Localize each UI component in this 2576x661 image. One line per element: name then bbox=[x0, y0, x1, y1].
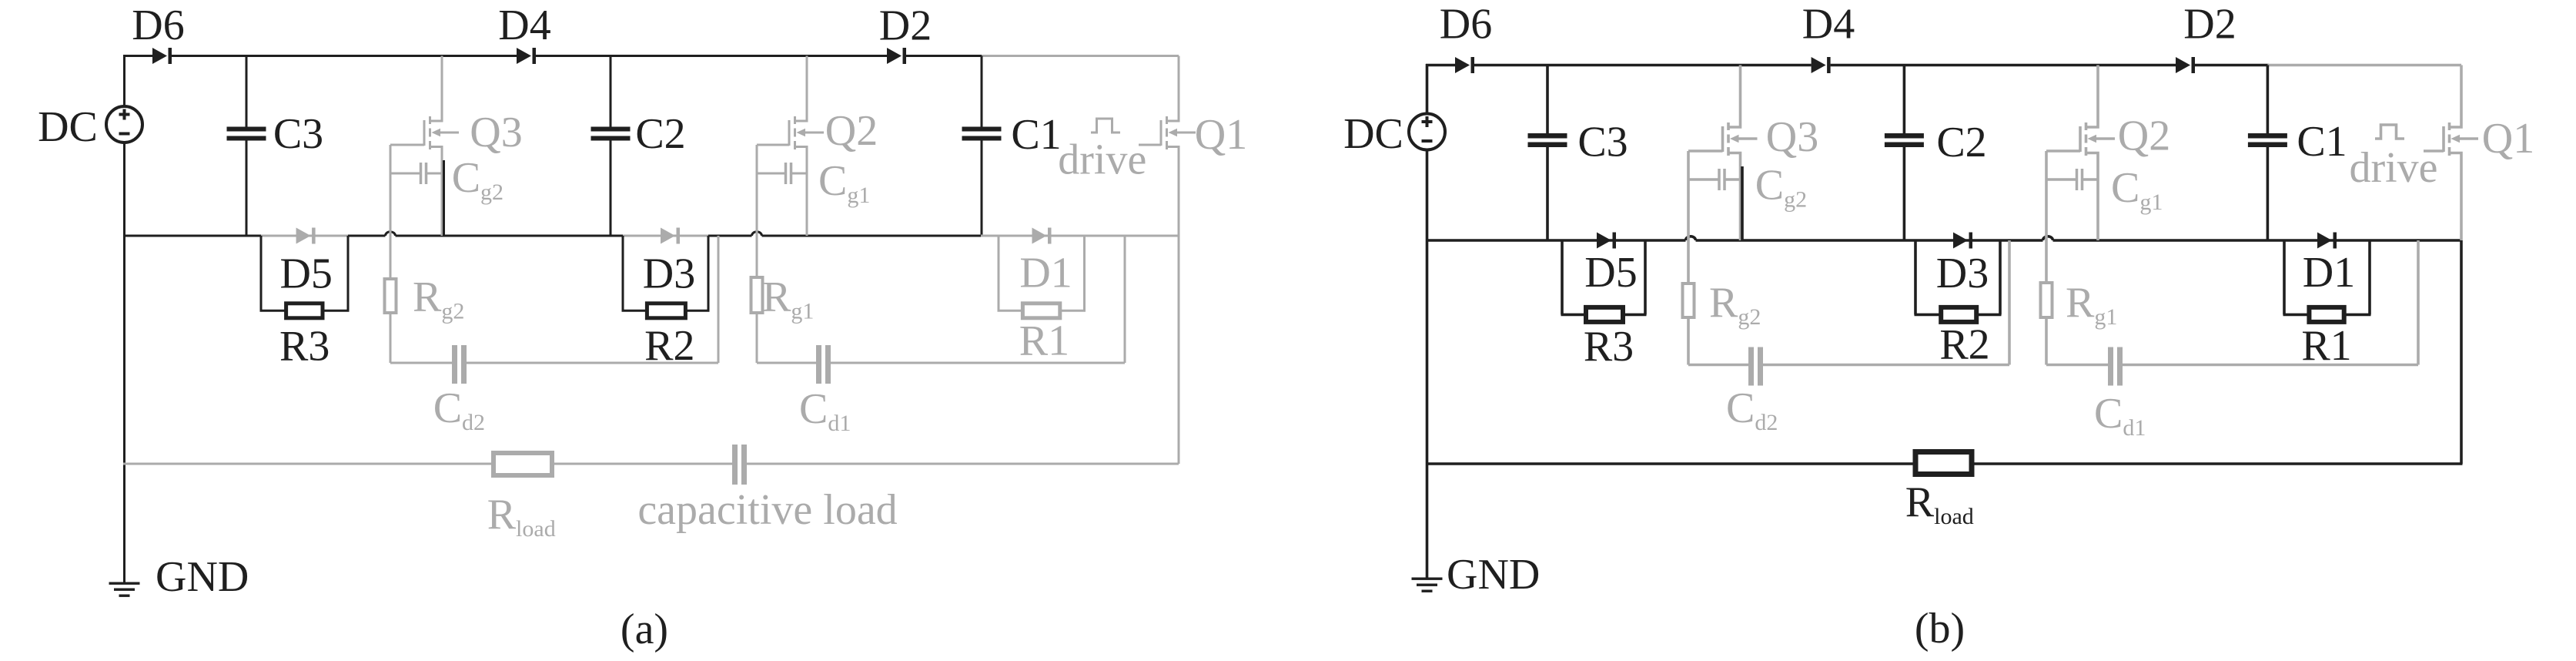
svg-text:R1: R1 bbox=[1019, 317, 1069, 364]
wire mid rail (b) bbox=[1426, 239, 1686, 242]
wire top rail segment DC to D6 (b) bbox=[1426, 64, 1455, 67]
capacitor C2 (b) bbox=[1885, 65, 1924, 241]
wire snubber loop around D3 (a) bbox=[622, 236, 710, 310]
svg-text:capacitive load: capacitive load bbox=[637, 486, 897, 534]
diode D6 (b) bbox=[1455, 57, 1470, 73]
diode D4 (b) bbox=[1812, 57, 1826, 73]
svg-text:C: C bbox=[818, 157, 847, 205]
diode D5 (b) bbox=[1597, 233, 1611, 249]
svg-text:R: R bbox=[1905, 478, 1935, 526]
resistor R3 (a) bbox=[286, 304, 323, 318]
svg-text:R: R bbox=[413, 273, 442, 321]
svg-text:D1: D1 bbox=[2303, 249, 2355, 297]
svg-text:D4: D4 bbox=[1802, 1, 1855, 49]
diode D3 (a) bbox=[661, 228, 675, 244]
capacitor Cg1 (b) bbox=[2046, 169, 2098, 190]
wire gate node down from Q (a) bbox=[390, 145, 452, 363]
wire snubber loop around D5 (a) bbox=[260, 236, 350, 310]
transistor Q1 (a) bbox=[1139, 56, 1196, 465]
wire bottom rail / load loop (b) bbox=[1426, 240, 2463, 464]
svg-text:R1: R1 bbox=[2301, 322, 2351, 370]
svg-text:C1: C1 bbox=[2297, 118, 2347, 166]
capacitor Cd1 (a) bbox=[816, 345, 831, 384]
capacitor Cd2 (b) bbox=[1748, 347, 1763, 386]
drive pulse symbol (a) bbox=[1091, 119, 1120, 133]
diode D1 (b) bbox=[2317, 233, 2332, 249]
resistor Rload (a) bbox=[493, 453, 552, 475]
diode D2 (b) bbox=[2176, 57, 2190, 73]
svg-text:C: C bbox=[2111, 164, 2139, 212]
svg-text:(a): (a) bbox=[621, 606, 668, 653]
resistor R3 (b) bbox=[1586, 307, 1623, 322]
svg-text:g2: g2 bbox=[1738, 304, 1761, 330]
wire Cd1 to mid rail (a) bbox=[831, 236, 1125, 363]
svg-text:DC: DC bbox=[1343, 110, 1403, 158]
ground GND (b) bbox=[1412, 578, 1443, 592]
capacitor C2 (a) bbox=[591, 56, 631, 237]
svg-text:C2: C2 bbox=[635, 110, 685, 158]
wire top rail D4 to D2 (a) bbox=[536, 55, 887, 57]
transistor Q2 (b) bbox=[2046, 65, 2115, 241]
transistor Q3 (b) bbox=[1688, 65, 1758, 241]
transistor Q2 (a) bbox=[757, 56, 824, 237]
svg-text:C: C bbox=[452, 154, 480, 202]
svg-text:D3: D3 bbox=[1936, 250, 1989, 297]
svg-text:g2: g2 bbox=[441, 299, 464, 324]
svg-text:d2: d2 bbox=[462, 410, 485, 435]
svg-text:C2: C2 bbox=[1936, 119, 1986, 166]
capacitor C3 (a) bbox=[227, 56, 266, 237]
svg-text:Q2: Q2 bbox=[2118, 112, 2170, 159]
transistor Q1 (b) bbox=[2424, 65, 2478, 241]
resistor Rg1 (b) bbox=[2041, 283, 2052, 317]
wire top rail segment DC to D6 (a) bbox=[123, 55, 152, 57]
svg-text:Q2: Q2 bbox=[825, 107, 878, 155]
diode D6 (a) bbox=[152, 48, 167, 64]
wire top rail C1 to Q1 drain (gray) (b) bbox=[2267, 64, 2461, 67]
capacitor Cd1 (b) bbox=[2108, 347, 2123, 386]
svg-text:R: R bbox=[762, 273, 791, 321]
svg-text:R: R bbox=[487, 491, 517, 539]
wire gate node down from Q (a) bbox=[757, 145, 816, 363]
svg-text:Q1: Q1 bbox=[2482, 115, 2534, 163]
resistor R2 (b) bbox=[1941, 307, 1976, 322]
svg-text:Q1: Q1 bbox=[1195, 111, 1247, 159]
wire DC- down to ground (b) bbox=[1426, 150, 1429, 578]
DC source Vb bbox=[1409, 114, 1445, 150]
capacitive load capacitor (a) bbox=[732, 445, 747, 485]
svg-text:Q3: Q3 bbox=[470, 109, 522, 156]
resistor R1 (b) bbox=[2309, 307, 2343, 322]
resistor Rg2 (b) bbox=[1683, 284, 1694, 317]
resistor Rg1 (a) bbox=[751, 277, 763, 313]
transistor Q3 (a) bbox=[390, 56, 459, 237]
wire DC+ to top rail (b) bbox=[1426, 64, 1429, 114]
svg-text:C: C bbox=[2094, 390, 2123, 438]
svg-text:DC: DC bbox=[38, 103, 98, 151]
wire DC+ to top rail (a) bbox=[123, 55, 125, 106]
svg-text:g1: g1 bbox=[847, 183, 870, 208]
diode D4 (a) bbox=[517, 48, 531, 64]
resistor R1 (a) bbox=[1022, 304, 1059, 318]
wire snubber loop around D1 (a) bbox=[998, 236, 1086, 310]
svg-text:R: R bbox=[2066, 279, 2095, 327]
wire top rail C1 to Q1 drain (gray) (a) bbox=[982, 55, 1179, 57]
capacitor C1 (b) bbox=[2248, 65, 2287, 241]
svg-text:Q3: Q3 bbox=[1766, 113, 1818, 161]
svg-text:drive: drive bbox=[2349, 144, 2437, 192]
capacitor C3 (b) bbox=[1528, 65, 1567, 241]
wire Cd2 to mid rail (b) bbox=[1763, 240, 2009, 365]
svg-text:g1: g1 bbox=[2094, 304, 2117, 330]
wire top rail D6 to D4 (b) bbox=[1474, 64, 1812, 67]
resistor Rload (b) bbox=[1915, 452, 1972, 475]
wire black segment beside Q3 source (b) bbox=[1741, 166, 1744, 240]
diode D2 (a) bbox=[887, 48, 902, 64]
wire hop over gate wire at x=2660 (b) bbox=[2043, 237, 2053, 240]
svg-text:R3: R3 bbox=[279, 322, 330, 370]
svg-text:(b): (b) bbox=[1915, 605, 1965, 653]
svg-text:GND: GND bbox=[156, 553, 249, 601]
svg-text:D2: D2 bbox=[879, 2, 932, 50]
resistor R2 (a) bbox=[647, 304, 685, 318]
wire snubber loop around D5 (b) bbox=[1561, 240, 1647, 314]
wire snubber loop around D1 (b) bbox=[2283, 240, 2371, 314]
svg-text:R3: R3 bbox=[1584, 323, 1634, 371]
capacitor Cg2 (b) bbox=[1688, 169, 1741, 190]
svg-text:C3: C3 bbox=[273, 110, 323, 158]
svg-text:R: R bbox=[1709, 279, 1738, 327]
wire mid rail (a) bbox=[123, 235, 261, 237]
diode D3 (b) bbox=[1953, 233, 1968, 249]
svg-text:GND: GND bbox=[1447, 551, 1540, 599]
svg-text:C1: C1 bbox=[1011, 111, 1061, 159]
wire Cd1 to mid rail (b) bbox=[2123, 240, 2418, 365]
svg-text:D6: D6 bbox=[1440, 1, 1492, 49]
wire snubber loop around D3 (b) bbox=[1915, 240, 2002, 314]
wire hop over gate wire at x=507 (a) bbox=[386, 232, 396, 236]
capacitor Cg1 (a) bbox=[757, 163, 807, 184]
svg-text:R2: R2 bbox=[1939, 320, 1989, 368]
wire black segment beside Q3 source (a) bbox=[443, 160, 445, 236]
svg-text:C: C bbox=[433, 384, 462, 432]
wire hop over gate wire at x=983 (a) bbox=[752, 232, 762, 236]
svg-text:g1: g1 bbox=[791, 299, 814, 324]
drive pulse symbol (b) bbox=[2375, 125, 2404, 139]
wire gate node down from Q (b) bbox=[2046, 151, 2108, 365]
diode D1 (a) bbox=[1032, 228, 1047, 244]
wire top rail D6 to D4 (a) bbox=[172, 55, 517, 57]
wire top rail D4 to D2 (b) bbox=[1831, 64, 2176, 67]
svg-text:load: load bbox=[516, 516, 556, 542]
svg-text:d2: d2 bbox=[1755, 410, 1778, 435]
svg-text:d1: d1 bbox=[828, 411, 851, 436]
DC source Va bbox=[106, 106, 142, 143]
svg-text:D3: D3 bbox=[643, 250, 695, 297]
svg-text:D4: D4 bbox=[498, 2, 550, 49]
wire gate node down from Q (b) bbox=[1688, 151, 1748, 365]
svg-text:drive: drive bbox=[1058, 136, 1146, 184]
svg-text:C: C bbox=[799, 385, 828, 433]
svg-text:C: C bbox=[1755, 162, 1784, 210]
capacitor Cd2 (a) bbox=[452, 345, 467, 384]
wire bottom rail / load loop (a) bbox=[123, 463, 1179, 465]
capacitor C1 (a) bbox=[962, 56, 1002, 237]
diode D5 (a) bbox=[296, 228, 311, 244]
wire DC- down to ground (a) bbox=[123, 143, 125, 582]
svg-text:D2: D2 bbox=[2183, 0, 2236, 48]
svg-text:C3: C3 bbox=[1577, 119, 1628, 166]
svg-text:d1: d1 bbox=[2123, 415, 2146, 441]
svg-text:D1: D1 bbox=[1019, 250, 1072, 297]
svg-text:load: load bbox=[1934, 504, 1974, 529]
wire top rail D2 to C1 top (b) bbox=[2195, 64, 2269, 67]
resistor Rg2 (a) bbox=[385, 279, 396, 313]
svg-text:D5: D5 bbox=[279, 250, 332, 298]
svg-text:D5: D5 bbox=[1584, 249, 1637, 297]
wire Cd2 to mid rail (a) bbox=[467, 236, 718, 363]
wire hop over gate wire at x=2196 (b) bbox=[1686, 237, 1696, 240]
svg-text:g1: g1 bbox=[2139, 190, 2163, 215]
svg-text:g2: g2 bbox=[480, 180, 503, 205]
wire top rail D2 to C1 top (a) bbox=[906, 55, 983, 57]
ground GND (a) bbox=[109, 582, 140, 597]
svg-text:g2: g2 bbox=[1784, 187, 1807, 213]
svg-text:C: C bbox=[1726, 384, 1755, 432]
capacitor Cg2 (a) bbox=[390, 163, 442, 184]
svg-text:D6: D6 bbox=[132, 2, 184, 49]
